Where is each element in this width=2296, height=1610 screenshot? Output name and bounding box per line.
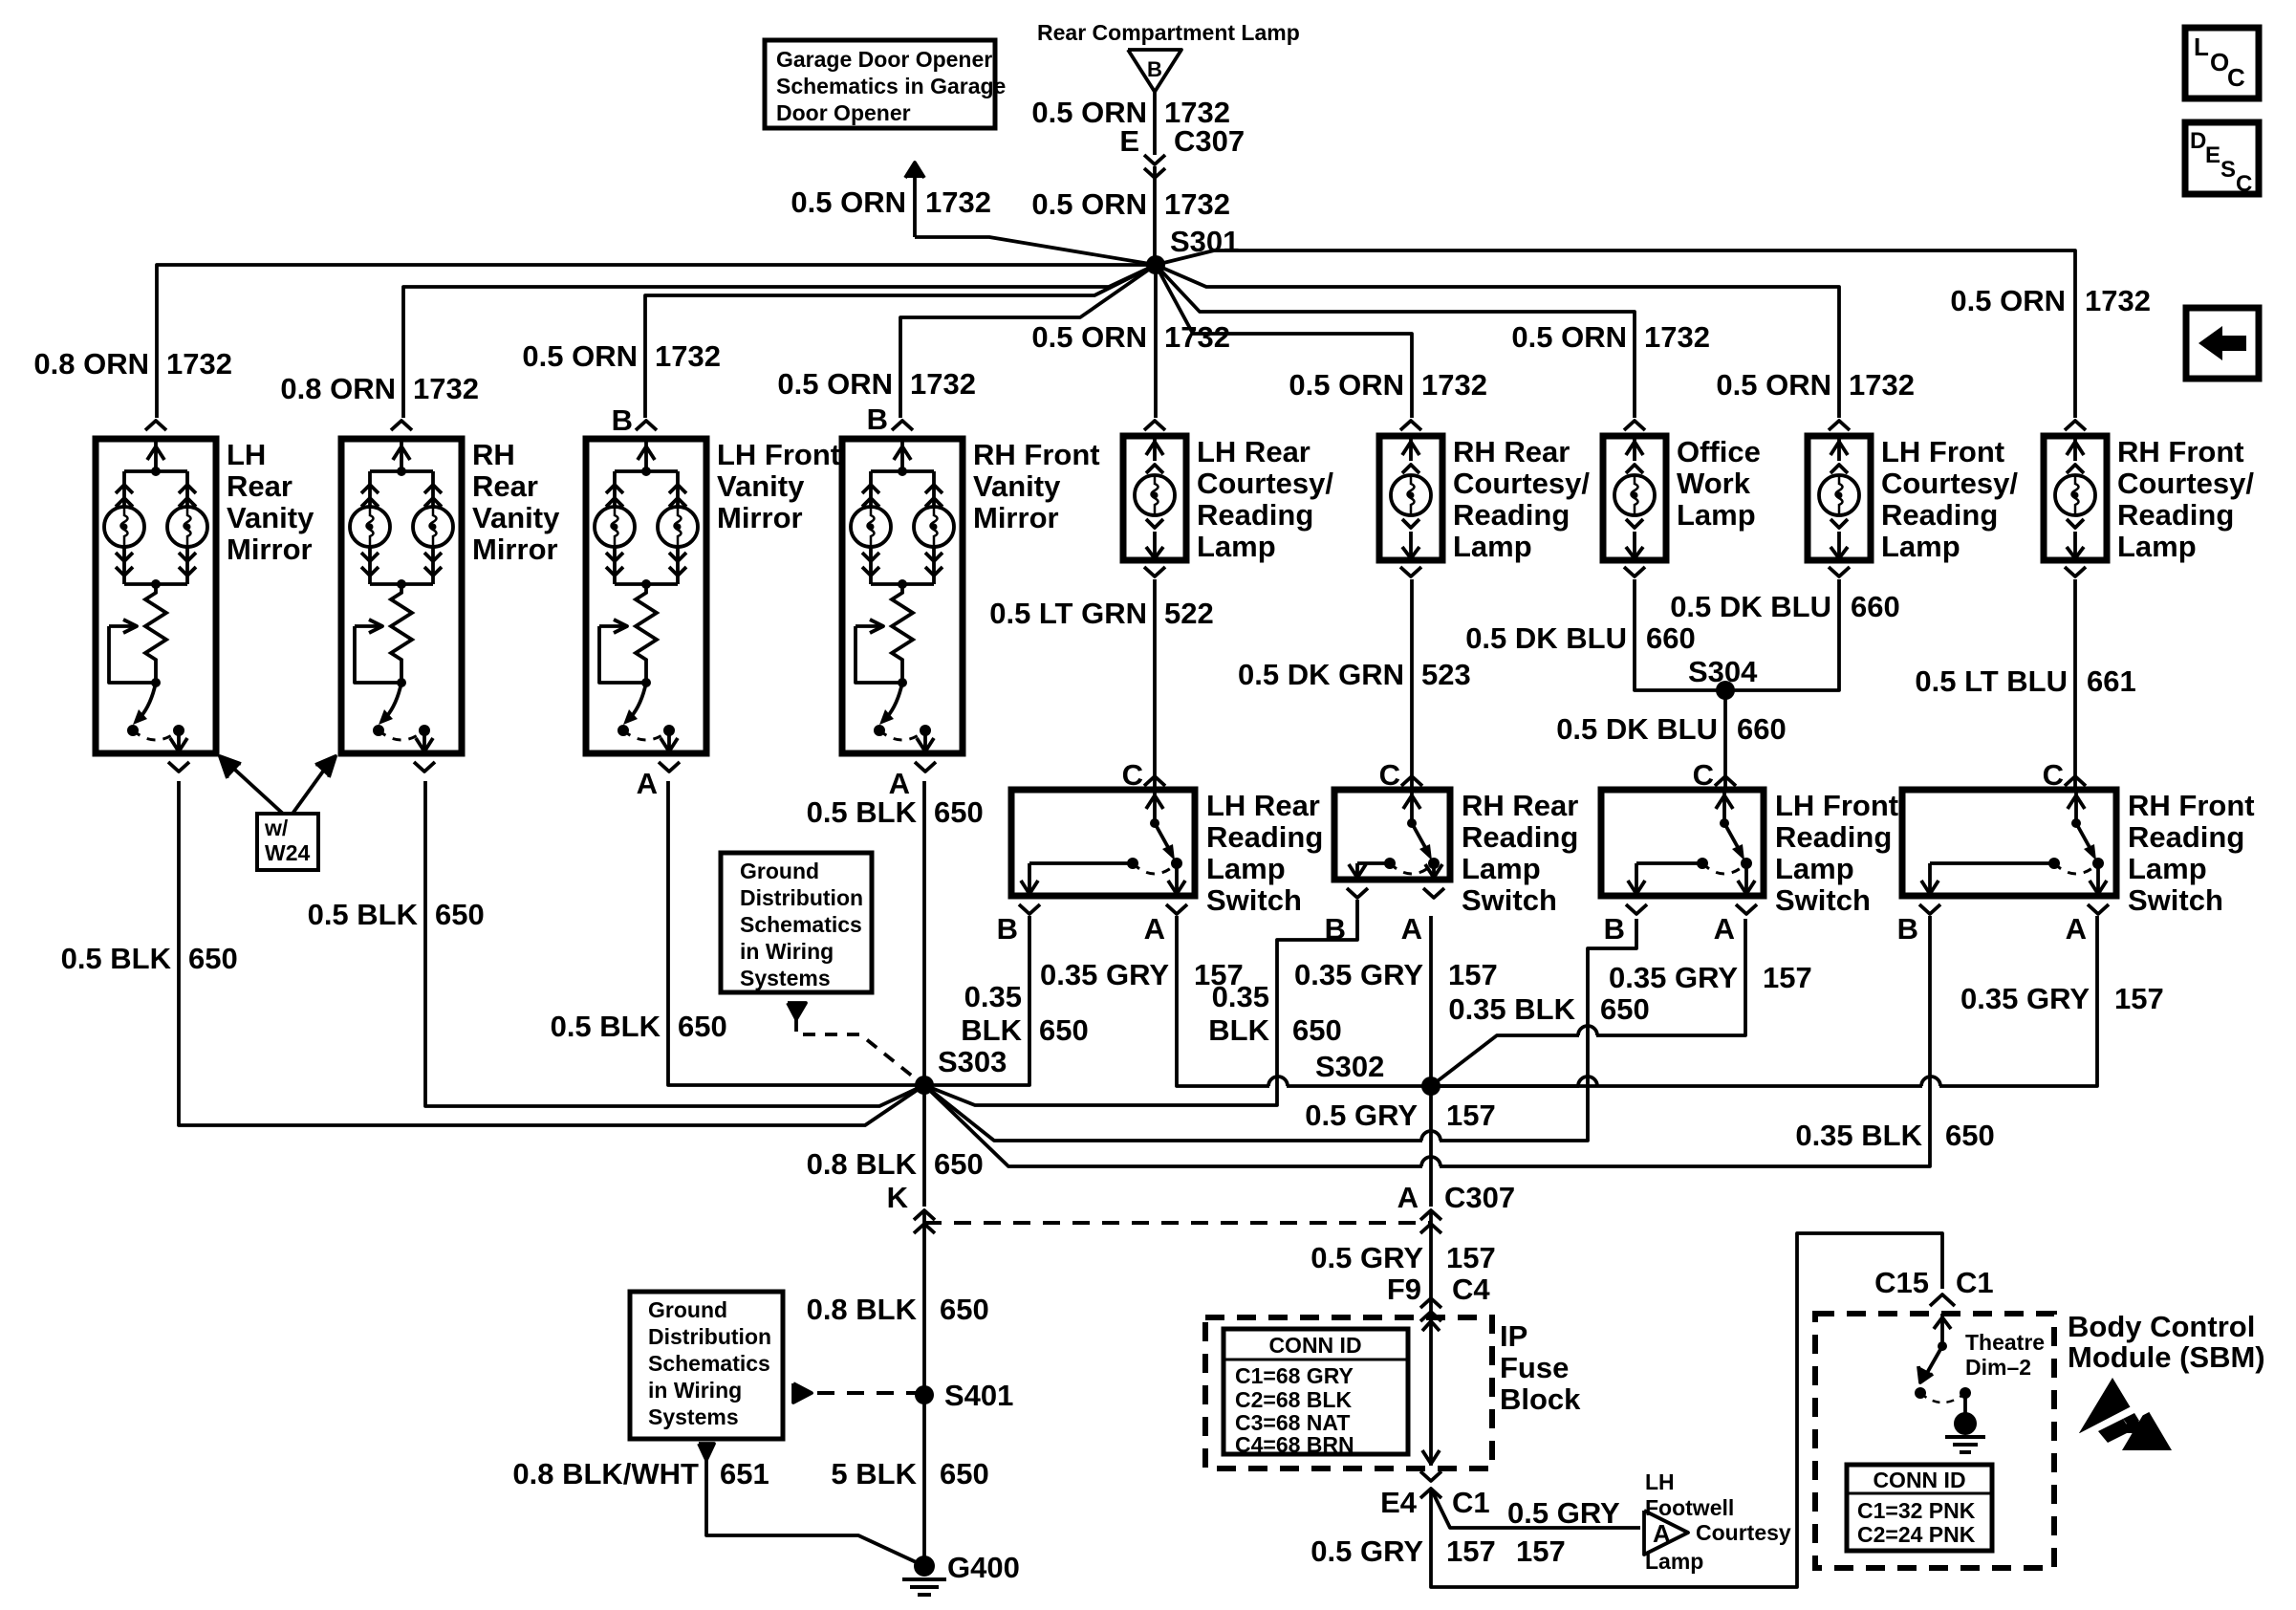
wire from S301 to Garage Door Opener box with arrow xyxy=(915,237,1156,265)
connector A C307 chevrons xyxy=(1420,1210,1441,1220)
svg-text:Reading: Reading xyxy=(1775,820,1892,854)
svg-text:650: 650 xyxy=(934,795,984,829)
splice S301 xyxy=(1146,255,1165,274)
svg-text:0.35 GRY: 0.35 GRY xyxy=(1609,961,1738,994)
Theatre Dim-2 switch in BCM xyxy=(1940,1314,1944,1346)
wire RH rear switch pin A to S302 (0.35 GRY 157) xyxy=(1429,916,1433,1086)
connector C15 chevron xyxy=(1930,1295,1955,1306)
svg-text:RH Rear: RH Rear xyxy=(1453,435,1570,468)
dashed wire from ground distribution box to S303 xyxy=(796,1019,918,1080)
svg-text:E4: E4 xyxy=(1380,1486,1418,1519)
svg-text:157: 157 xyxy=(1446,1534,1496,1568)
Body Control Module dashed box xyxy=(1815,1314,2054,1568)
wire LH rear switch pin A to S302 (0.35 GRY 157) xyxy=(1177,916,1269,1086)
svg-text:661: 661 xyxy=(2087,664,2136,698)
wire S301 to RH rear vanity mirror xyxy=(403,265,1156,418)
svg-text:157: 157 xyxy=(1763,961,1812,994)
svg-text:1732: 1732 xyxy=(1644,320,1710,354)
Garage Door Opener reference box xyxy=(765,40,995,128)
ground symbol triangle below lower ground box xyxy=(699,1444,714,1460)
svg-text:Rear: Rear xyxy=(227,469,292,503)
component RH Front Courtesy/Reading Lamp xyxy=(2044,436,2107,560)
wire S301 to LH front courtesy lamp xyxy=(1156,265,1839,418)
component Office Work Lamp xyxy=(1603,436,1666,560)
svg-text:B: B xyxy=(1897,912,1918,946)
wire S401 down to G400 (5 BLK 650) xyxy=(922,1395,926,1566)
svg-text:S303: S303 xyxy=(938,1045,1007,1078)
svg-text:650: 650 xyxy=(1292,1013,1342,1047)
svg-text:A: A xyxy=(1653,1519,1671,1548)
component RH Rear Reading Lamp Switch xyxy=(1334,790,1450,880)
svg-text:C1: C1 xyxy=(1452,1486,1490,1519)
w/ W24 option box xyxy=(257,814,318,870)
off-page connector triangle B (Rear Compartment Lamp) xyxy=(1128,50,1181,92)
svg-text:0.5 ORN: 0.5 ORN xyxy=(1031,320,1147,354)
svg-text:C: C xyxy=(2236,171,2252,197)
svg-text:Fuse: Fuse xyxy=(1500,1351,1569,1384)
svg-text:RH Front: RH Front xyxy=(973,438,1100,471)
CONN ID table (BCM) xyxy=(1847,1465,1992,1551)
svg-text:0.5 ORN: 0.5 ORN xyxy=(1511,320,1627,354)
svg-text:Vanity: Vanity xyxy=(973,469,1061,503)
svg-text:D: D xyxy=(2190,128,2206,154)
wire E4 to LH footwell courtesy lamp (0.5 GRY 157) xyxy=(1431,1489,1640,1528)
svg-text:Mirror: Mirror xyxy=(472,533,558,566)
svg-text:Courtesy: Courtesy xyxy=(1696,1520,1791,1545)
svg-text:G400: G400 xyxy=(947,1551,1020,1584)
svg-text:C307: C307 xyxy=(1174,124,1245,158)
svg-text:C4: C4 xyxy=(1452,1273,1490,1306)
svg-text:660: 660 xyxy=(1646,621,1696,655)
svg-text:A: A xyxy=(1144,912,1165,946)
svg-text:C307: C307 xyxy=(1444,1181,1515,1214)
wire S302 down to connector C307 pin A (0.5 GRY 157) xyxy=(1429,1086,1433,1207)
svg-text:1732: 1732 xyxy=(166,347,232,381)
svg-text:Switch: Switch xyxy=(2128,883,2223,917)
svg-text:BLK: BLK xyxy=(1208,1013,1269,1047)
svg-text:650: 650 xyxy=(1039,1013,1089,1047)
svg-text:A: A xyxy=(1714,912,1735,946)
connector F9 chevrons xyxy=(1420,1298,1441,1308)
wire from C307 down to splice S301 xyxy=(1153,166,1157,265)
svg-text:C2=24 PNK: C2=24 PNK xyxy=(1857,1522,1976,1547)
svg-text:A: A xyxy=(637,767,658,800)
svg-text:Courtesy/: Courtesy/ xyxy=(1453,467,1590,500)
LOC reference box xyxy=(2185,28,2259,98)
svg-text:0.5 ORN: 0.5 ORN xyxy=(1031,187,1147,221)
wire RH front vanity pin A to S303 (0.5 BLK 650) xyxy=(922,781,926,1085)
wire RH front switch pin B to S303 (0.35 BLK 650) xyxy=(1440,916,1930,1166)
component RH Rear Courtesy/Reading Lamp xyxy=(1379,436,1442,560)
svg-text:w/: w/ xyxy=(264,816,289,840)
svg-text:in Wiring: in Wiring xyxy=(648,1378,742,1403)
svg-text:Lamp: Lamp xyxy=(1462,852,1541,885)
splice S304 xyxy=(1716,681,1735,700)
svg-text:Reading: Reading xyxy=(1881,498,1998,532)
svg-text:E: E xyxy=(1119,124,1139,158)
svg-text:Distribution: Distribution xyxy=(648,1324,771,1349)
wire LH front switch pin B to S303 (0.35 BLK 650) xyxy=(1440,919,1636,1141)
svg-text:0.5 LT BLU: 0.5 LT BLU xyxy=(1915,664,2068,698)
svg-text:B: B xyxy=(867,402,888,436)
arrow from W24 box to RH rear vanity mirror xyxy=(292,762,330,814)
svg-text:0.35 BLK: 0.35 BLK xyxy=(1795,1119,1922,1152)
svg-text:Switch: Switch xyxy=(1206,883,1302,917)
svg-text:S: S xyxy=(2220,157,2236,183)
svg-text:LH Front: LH Front xyxy=(1881,435,2004,468)
wire office work lamp to splice S304 xyxy=(1635,579,1725,690)
svg-text:Work: Work xyxy=(1677,467,1751,500)
arrow from W24 box to LH rear vanity mirror xyxy=(227,762,283,814)
wire K down to splice S401 (0.8 BLK 650) xyxy=(922,1212,926,1395)
svg-text:0.35 BLK: 0.35 BLK xyxy=(1448,992,1575,1026)
ground inside BCM xyxy=(1963,1393,1967,1415)
wire through IP fuse block xyxy=(1429,1317,1433,1466)
svg-text:RH: RH xyxy=(472,438,515,471)
svg-text:Ground: Ground xyxy=(740,859,819,883)
svg-text:Courtesy/: Courtesy/ xyxy=(2117,467,2254,500)
connector E4 C1 chevron xyxy=(1420,1471,1441,1481)
svg-text:LH: LH xyxy=(1645,1469,1675,1494)
component LH Rear Courtesy/Reading Lamp xyxy=(1123,436,1186,560)
svg-text:LH Front: LH Front xyxy=(1775,789,1898,822)
svg-text:L: L xyxy=(2194,33,2209,61)
svg-text:0.5 GRY: 0.5 GRY xyxy=(1310,1534,1423,1568)
svg-text:660: 660 xyxy=(1737,712,1787,746)
svg-text:0.5 DK GRN: 0.5 DK GRN xyxy=(1238,658,1404,691)
svg-text:Block: Block xyxy=(1500,1382,1581,1416)
svg-text:F9: F9 xyxy=(1387,1273,1421,1306)
svg-text:Vanity: Vanity xyxy=(227,501,314,534)
svg-text:IP: IP xyxy=(1500,1319,1527,1353)
svg-text:CONN ID: CONN ID xyxy=(1873,1468,1965,1492)
wire E4 down and to BCM connector C15 (0.5 GRY 157) xyxy=(1431,1233,1942,1587)
svg-text:Reading: Reading xyxy=(1197,498,1313,532)
svg-text:RH Front: RH Front xyxy=(2128,789,2255,822)
svg-text:650: 650 xyxy=(934,1147,984,1181)
svg-text:0.35 GRY: 0.35 GRY xyxy=(1960,982,2090,1015)
IP Fuse Block dashed box xyxy=(1205,1317,1492,1469)
svg-text:0.5 LT GRN: 0.5 LT GRN xyxy=(989,597,1147,630)
Ground Distribution reference box (lower) xyxy=(630,1292,783,1439)
svg-text:650: 650 xyxy=(435,898,485,931)
component RH Rear Vanity Mirror xyxy=(341,439,462,753)
arrow from ground distribution box xyxy=(788,1003,806,1019)
svg-text:650: 650 xyxy=(188,942,238,975)
wire S301 to LH front vanity mirror xyxy=(645,265,1156,418)
svg-text:650: 650 xyxy=(940,1457,989,1490)
connector C307 chevrons xyxy=(1144,155,1165,164)
svg-text:1732: 1732 xyxy=(1164,187,1230,221)
component RH Front Reading Lamp Switch xyxy=(1902,790,2116,896)
wire S301 to office work lamp xyxy=(1156,265,1635,418)
svg-text:1732: 1732 xyxy=(1421,368,1487,402)
svg-text:0.35 GRY: 0.35 GRY xyxy=(1294,958,1423,991)
svg-text:RH Rear: RH Rear xyxy=(1462,789,1578,822)
svg-text:650: 650 xyxy=(940,1293,989,1326)
svg-text:1732: 1732 xyxy=(1164,320,1230,354)
wire LH rear courtesy lamp to connector C xyxy=(1153,579,1157,790)
svg-text:Lamp: Lamp xyxy=(1775,852,1854,885)
svg-text:1732: 1732 xyxy=(910,367,976,401)
svg-text:157: 157 xyxy=(1448,958,1498,991)
wire LH front courtesy lamp to splice S304 xyxy=(1725,579,1839,690)
svg-text:Switch: Switch xyxy=(1775,883,1871,917)
svg-text:Lamp: Lamp xyxy=(1206,852,1286,885)
svg-text:1732: 1732 xyxy=(413,372,479,405)
splice S401 xyxy=(915,1385,934,1404)
svg-text:Rear: Rear xyxy=(472,469,538,503)
svg-text:157: 157 xyxy=(1446,1099,1496,1132)
ground G400 symbol xyxy=(914,1556,935,1577)
svg-text:LH Rear: LH Rear xyxy=(1206,789,1320,822)
svg-text:Body Control: Body Control xyxy=(2068,1310,2255,1343)
svg-text:Reading: Reading xyxy=(1462,820,1578,854)
svg-text:Reading: Reading xyxy=(2117,498,2234,532)
svg-text:LH Rear: LH Rear xyxy=(1197,435,1310,468)
svg-text:5 BLK: 5 BLK xyxy=(831,1457,917,1490)
wire S301 down to LH rear courtesy lamp xyxy=(1154,265,1158,418)
wire RH rear switch pin B to S303 (0.35 BLK 650) xyxy=(924,900,1357,1105)
wire LH front switch pin A to S302 (0.35 GRY 157) xyxy=(1596,919,1745,1035)
component LH Front Reading Lamp Switch xyxy=(1601,790,1764,896)
wire S301 to RH rear courtesy lamp xyxy=(1156,265,1412,418)
svg-text:0.5 BLK: 0.5 BLK xyxy=(308,898,419,931)
svg-text:650: 650 xyxy=(1600,992,1650,1026)
svg-text:0.5 ORN: 0.5 ORN xyxy=(1289,368,1404,402)
svg-text:E: E xyxy=(2205,142,2220,168)
svg-text:660: 660 xyxy=(1851,590,1900,623)
wire S301 to LH rear vanity mirror xyxy=(157,265,1156,418)
svg-text:1732: 1732 xyxy=(1849,368,1915,402)
svg-text:522: 522 xyxy=(1164,597,1214,630)
svg-text:0.5 BLK: 0.5 BLK xyxy=(807,795,918,829)
svg-text:B: B xyxy=(612,403,633,437)
wire LH rear switch pin B to S303 (0.35 BLK 650) xyxy=(924,916,1029,1085)
wire RH front courtesy lamp to connector C xyxy=(2073,579,2077,790)
svg-text:0.5 ORN: 0.5 ORN xyxy=(791,185,906,219)
svg-text:Courtesy/: Courtesy/ xyxy=(1881,467,2018,500)
svg-text:Module (SBM): Module (SBM) xyxy=(2068,1340,2265,1374)
svg-text:S302: S302 xyxy=(1315,1050,1384,1083)
component LH Rear Vanity Mirror xyxy=(96,439,216,753)
component LH Front Courtesy/Reading Lamp xyxy=(1808,436,1871,560)
svg-text:0.5 ORN: 0.5 ORN xyxy=(1716,368,1831,402)
svg-text:C1=32 PNK: C1=32 PNK xyxy=(1857,1498,1976,1523)
wire LH front vanity pin A to S303 (0.5 BLK 650) xyxy=(668,781,924,1085)
DESC reference box xyxy=(2185,122,2259,194)
svg-text:Vanity: Vanity xyxy=(717,469,805,503)
svg-text:Vanity: Vanity xyxy=(472,501,560,534)
Ground Distribution reference box (middle) xyxy=(721,853,872,992)
svg-text:0.35: 0.35 xyxy=(1212,980,1269,1013)
dashed connector line C307 xyxy=(924,1221,1431,1225)
svg-text:0.8 ORN: 0.8 ORN xyxy=(280,372,396,405)
svg-text:0.5 GRY: 0.5 GRY xyxy=(1507,1496,1620,1530)
svg-text:Mirror: Mirror xyxy=(717,501,803,534)
svg-text:Footwell: Footwell xyxy=(1645,1495,1734,1520)
svg-text:0.8 ORN: 0.8 ORN xyxy=(33,347,149,381)
svg-text:0.8 BLK: 0.8 BLK xyxy=(807,1293,918,1326)
svg-text:0.5 DK BLU: 0.5 DK BLU xyxy=(1670,590,1831,623)
splice S303 xyxy=(915,1076,934,1095)
wire S304 to connector C of LH front switch xyxy=(1723,690,1727,790)
svg-text:0.35: 0.35 xyxy=(964,980,1022,1013)
CONN ID table (IP fuse block) xyxy=(1224,1329,1408,1454)
ESD warning symbol xyxy=(2079,1378,2146,1433)
svg-text:650: 650 xyxy=(1945,1119,1995,1152)
svg-text:0.5 ORN: 0.5 ORN xyxy=(1950,284,2066,317)
svg-text:Theatre: Theatre xyxy=(1965,1330,2045,1355)
svg-text:Mirror: Mirror xyxy=(227,533,313,566)
svg-text:W24: W24 xyxy=(265,840,311,865)
svg-text:Systems: Systems xyxy=(648,1404,739,1429)
svg-text:C4=68 BRN: C4=68 BRN xyxy=(1235,1432,1354,1457)
svg-text:B: B xyxy=(1147,57,1162,81)
component RH Front Vanity Mirror xyxy=(842,439,963,753)
svg-text:in Wiring: in Wiring xyxy=(740,939,834,964)
svg-text:0.5 ORN: 0.5 ORN xyxy=(522,339,638,373)
svg-text:Lamp: Lamp xyxy=(1645,1549,1703,1574)
svg-text:LH: LH xyxy=(227,438,266,471)
svg-text:Lamp: Lamp xyxy=(1197,530,1276,563)
svg-text:Lamp: Lamp xyxy=(2117,530,2197,563)
wire C307 to IP fuse block connector F9 (0.5 GRY 157) xyxy=(1429,1212,1433,1317)
svg-text:Courtesy/: Courtesy/ xyxy=(1197,467,1333,500)
wire S301 to RH front courtesy lamp xyxy=(1156,250,2075,418)
svg-text:Reading: Reading xyxy=(1206,820,1323,854)
svg-text:Reading: Reading xyxy=(1453,498,1570,532)
component LH Front Vanity Mirror xyxy=(586,439,706,753)
svg-text:0.5 BLK: 0.5 BLK xyxy=(61,942,172,975)
wire S303 down to connector C307 pin K (0.8 BLK 650) xyxy=(922,1085,926,1207)
wire RH front switch pin A to S302 (0.35 GRY 157) xyxy=(1939,916,2097,1086)
svg-text:0.8 BLK: 0.8 BLK xyxy=(807,1147,918,1181)
svg-text:Reading: Reading xyxy=(2128,820,2244,854)
svg-text:651: 651 xyxy=(720,1457,769,1490)
svg-text:K: K xyxy=(887,1181,909,1214)
component LH Rear Reading Lamp Switch xyxy=(1011,790,1195,896)
svg-text:Schematics: Schematics xyxy=(740,912,862,937)
hop on GRY wire over LH front B wire xyxy=(1578,1077,1597,1086)
wire S301 to RH front vanity mirror xyxy=(900,265,1156,418)
svg-text:523: 523 xyxy=(1421,658,1471,691)
svg-text:C15: C15 xyxy=(1874,1266,1929,1299)
svg-text:Schematics in Garage: Schematics in Garage xyxy=(776,74,1006,98)
svg-text:Rear Compartment Lamp: Rear Compartment Lamp xyxy=(1037,20,1300,45)
svg-text:1732: 1732 xyxy=(925,185,991,219)
svg-text:0.8 BLK/WHT: 0.8 BLK/WHT xyxy=(512,1457,699,1490)
svg-text:0.5 ORN: 0.5 ORN xyxy=(777,367,893,401)
wire LH rear vanity to S303 (0.5 BLK 650) xyxy=(179,781,924,1125)
wire from triangle B down to connector C307 xyxy=(1153,92,1157,155)
splice S302 xyxy=(1421,1077,1440,1096)
svg-text:1732: 1732 xyxy=(655,339,721,373)
svg-text:0.5 GRY: 0.5 GRY xyxy=(1310,1241,1423,1274)
svg-text:157: 157 xyxy=(2114,982,2164,1015)
svg-text:0.5 GRY: 0.5 GRY xyxy=(1305,1099,1418,1132)
svg-text:0.35 GRY: 0.35 GRY xyxy=(1040,958,1169,991)
svg-text:Mirror: Mirror xyxy=(973,501,1059,534)
svg-text:Lamp: Lamp xyxy=(1881,530,1960,563)
wire 0.8 BLK/WHT 651 to G400 xyxy=(706,1460,924,1566)
arrow to S401 from ground distribution box xyxy=(793,1383,812,1403)
svg-text:157: 157 xyxy=(1446,1241,1496,1274)
dashed wire from arrow to S401 xyxy=(817,1391,918,1395)
svg-text:Distribution: Distribution xyxy=(740,885,863,910)
svg-text:C1: C1 xyxy=(1956,1266,1994,1299)
svg-text:Dim–2: Dim–2 xyxy=(1965,1355,2031,1380)
wire RH rear courtesy lamp to connector C xyxy=(1410,579,1414,790)
svg-text:Systems: Systems xyxy=(740,966,831,990)
svg-text:Door Opener: Door Opener xyxy=(776,100,911,125)
wire RH rear vanity to S303 (0.5 BLK 650) xyxy=(425,781,924,1106)
svg-text:A: A xyxy=(1397,1181,1419,1214)
svg-text:A: A xyxy=(2066,912,2087,946)
svg-text:RH Front: RH Front xyxy=(2117,435,2244,468)
svg-text:Lamp: Lamp xyxy=(2128,852,2207,885)
svg-text:Lamp: Lamp xyxy=(1677,498,1756,532)
svg-text:BLK: BLK xyxy=(961,1013,1022,1047)
svg-text:157: 157 xyxy=(1516,1534,1566,1568)
svg-text:CONN ID: CONN ID xyxy=(1268,1333,1361,1358)
svg-text:Schematics: Schematics xyxy=(648,1351,770,1376)
svg-text:650: 650 xyxy=(678,1010,727,1043)
svg-text:Ground: Ground xyxy=(648,1297,727,1322)
svg-text:Garage Door Opener: Garage Door Opener xyxy=(776,47,992,72)
connector K chevrons xyxy=(914,1210,935,1220)
svg-text:C: C xyxy=(2227,63,2245,92)
svg-text:C2=68 BLK: C2=68 BLK xyxy=(1235,1387,1352,1412)
svg-text:0.5 BLK: 0.5 BLK xyxy=(551,1010,661,1043)
svg-text:B: B xyxy=(1604,912,1625,946)
svg-text:C1=68 GRY: C1=68 GRY xyxy=(1235,1363,1354,1388)
left arrow reference box xyxy=(2186,308,2259,379)
svg-text:1732: 1732 xyxy=(2085,284,2151,317)
svg-text:Switch: Switch xyxy=(1462,883,1557,917)
svg-text:0.5 DK BLU: 0.5 DK BLU xyxy=(1465,621,1627,655)
off-page triangle A to LH footwell courtesy lamp xyxy=(1644,1511,1688,1555)
svg-text:Office: Office xyxy=(1677,435,1761,468)
svg-text:A: A xyxy=(1401,912,1422,946)
svg-text:B: B xyxy=(997,912,1018,946)
svg-text:Lamp: Lamp xyxy=(1453,530,1532,563)
svg-text:0.5 DK BLU: 0.5 DK BLU xyxy=(1556,712,1718,746)
svg-text:LH Front: LH Front xyxy=(717,438,840,471)
svg-text:S401: S401 xyxy=(944,1379,1013,1412)
